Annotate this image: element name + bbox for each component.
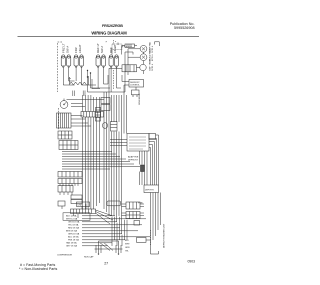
control box B1	[129, 80, 144, 88]
wire right column	[151, 193, 161, 249]
wire bundle bottom verticals	[112, 217, 127, 246]
box small BS1	[58, 201, 65, 206]
capacitor block right 2	[126, 212, 144, 226]
motor M2 condenser fan	[140, 54, 147, 61]
svg-text:GRY 18 GA: GRY 18 GA	[66, 245, 78, 248]
lamp L2 freezer light	[74, 55, 84, 68]
svg-text:GRN: GRN	[125, 247, 130, 249]
ground bracket	[151, 248, 159, 254]
label freezer light	[74, 44, 82, 53]
motor M1 evaporator fan	[140, 45, 147, 52]
cabinet outline left (dashed)	[58, 42, 63, 92]
box text BT1	[77, 202, 90, 207]
part P2 dark	[141, 165, 145, 172]
connector box ice maker	[107, 201, 121, 206]
svg-text:RED 18 GA: RED 18 GA	[68, 227, 79, 230]
wire control box leads	[122, 75, 136, 92]
header model number	[102, 24, 123, 28]
wire block exits right	[149, 135, 159, 185]
lamp L4 refrigerator light	[109, 55, 119, 68]
wire harness horizontal center	[62, 152, 140, 170]
heater bar H1	[96, 108, 101, 122]
terminal strip TS1	[81, 112, 104, 118]
svg-text:ADAPTIVE: ADAPTIVE	[128, 156, 139, 159]
wire right bundle	[140, 151, 148, 185]
label cond fan motor	[149, 49, 155, 61]
wire bus under lamps	[63, 75, 125, 92]
wire motor leads	[125, 42, 159, 92]
wire corner nest	[89, 76, 101, 89]
svg-text:CONTROL: CONTROL	[130, 85, 141, 87]
footer code 0903	[187, 260, 195, 264]
label refr light	[109, 44, 117, 53]
svg-text:*: *	[115, 40, 117, 44]
footer legend	[19, 263, 57, 271]
wire top cross line	[67, 100, 105, 107]
wire strip fanout	[62, 204, 113, 225]
label evap fan motor	[149, 42, 155, 53]
wire bundle A (center)	[104, 92, 122, 212]
switch bank SB2	[58, 179, 82, 184]
label vertical small	[139, 93, 141, 105]
label freezer light switch	[62, 43, 70, 53]
svg-text:GRN 18 GA: GRN 18 GA	[68, 233, 80, 236]
capacitor block right	[126, 202, 144, 209]
svg-text:* = Non-Illustrated Parts: * = Non-Illustrated Parts	[19, 267, 57, 271]
connector stubs	[73, 91, 85, 97]
label small right mid	[138, 203, 143, 205]
svg-text:0903: 0903	[187, 260, 195, 264]
label under block	[128, 156, 139, 162]
svg-text:MTR #: MTR #	[152, 54, 154, 61]
svg-text:FRS26ZRGB: FRS26ZRGB	[102, 24, 123, 28]
svg-text:PINK: PINK	[138, 203, 143, 205]
switch bank SB3	[58, 186, 73, 193]
control housing hatched	[57, 113, 72, 128]
defrost heater box	[144, 185, 159, 193]
svg-text:YEL 18 GA: YEL 18 GA	[68, 224, 79, 227]
svg-text:MTR #: MTR #	[152, 63, 154, 70]
lamp L1 freezer light switch	[61, 55, 71, 68]
wire housing links	[71, 116, 91, 127]
label right vertical text	[163, 223, 166, 248]
wire relay to bundle	[109, 43, 125, 93]
svg-text:WIRING DIAGRAM: WIRING DIAGRAM	[91, 30, 127, 35]
svg-text:WHT: WHT	[125, 244, 130, 246]
dashed line right bottom	[150, 230, 152, 245]
label relay	[150, 58, 155, 70]
svg-text:BLK: BLK	[125, 240, 129, 242]
wire compressor links	[99, 241, 119, 249]
header rule	[18, 35, 200, 37]
wire bundle A lower	[109, 132, 122, 235]
connector block CB1	[127, 134, 156, 152]
compressor motor symbol	[95, 241, 103, 255]
terminal strip TS2	[71, 209, 96, 214]
terminator box right	[137, 238, 151, 243]
part P1 small	[132, 90, 140, 97]
node asterisk marker top	[114, 40, 118, 45]
lamp L3 refrigerator light switch	[96, 55, 106, 68]
wire lamp drops	[63, 68, 116, 93]
wire cap block stubs	[114, 204, 126, 216]
wire merge dots	[87, 70, 91, 78]
partition dashed	[113, 70, 115, 90]
label compressor	[57, 255, 94, 259]
svg-text:SW #: SW #	[66, 46, 70, 53]
label rows right	[125, 240, 130, 253]
wire label rows	[66, 215, 80, 248]
svg-text:BLU 18 GA: BLU 18 GA	[68, 236, 79, 239]
wire right feeders	[110, 92, 127, 146]
selector rows R2	[59, 141, 78, 150]
svg-text:ORG 18 GA: ORG 18 GA	[68, 221, 80, 224]
wire rows lines	[82, 216, 150, 251]
relay K1 and overload	[122, 64, 146, 72]
svg-text:DEFROST: DEFROST	[128, 159, 139, 161]
wire vertical pair center	[88, 71, 91, 93]
title WIRING DIAGRAM	[91, 30, 127, 35]
wire bundle B (left) above strip	[83, 95, 100, 112]
box pair BP1	[71, 195, 82, 204]
cabinet outline mid (dashed)	[58, 108, 60, 130]
svg-text:LIGHT: LIGHT	[78, 44, 82, 53]
switch bank SB1	[58, 172, 82, 178]
start device symbol	[115, 241, 123, 255]
wire bundle B below strip	[83, 117, 100, 209]
thermostat dashed box	[106, 41, 133, 50]
svg-text:DEFROST: DEFROST	[130, 82, 140, 84]
label refr light switch	[96, 43, 104, 53]
svg-text:*: *	[106, 41, 108, 45]
svg-text:5995526908: 5995526908	[174, 26, 195, 30]
thermostat dial TH1	[60, 99, 68, 109]
svg-text:PNK 18 GA: PNK 18 GA	[68, 239, 79, 242]
svg-text:BRN 18 GA: BRN 18 GA	[66, 230, 77, 233]
svg-text:SW #: SW #	[100, 46, 104, 53]
svg-text:TAN 18 GA: TAN 18 GA	[66, 242, 77, 245]
inductor choke	[122, 44, 137, 47]
svg-text:27: 27	[104, 261, 108, 265]
comb ticks SB2	[60, 184, 78, 187]
page number 27	[104, 261, 108, 265]
svg-text:RUN CAP: RUN CAP	[84, 256, 94, 259]
comb ticks SB3	[60, 192, 72, 195]
svg-text:DEF HTR: DEF HTR	[145, 189, 154, 191]
wire label frame	[63, 213, 90, 221]
heater element zigzag	[69, 77, 87, 85]
svg-text:DEFROST HEATER 120V: DEFROST HEATER 120V	[163, 223, 166, 248]
svg-text:BLK 14 GA: BLK 14 GA	[66, 215, 77, 218]
switch S5 box	[101, 98, 110, 111]
selector rows R1	[58, 131, 72, 139]
component group compressor relay	[102, 122, 117, 132]
svg-text:MTR #: MTR #	[152, 45, 154, 52]
svg-text:COMPRESSOR: COMPRESSOR	[57, 255, 73, 257]
svg-text:SOLENOID: SOLENOID	[139, 93, 141, 105]
header publication number	[170, 22, 195, 30]
svg-text:# = Fast-Moving Parts: # = Fast-Moving Parts	[20, 263, 55, 267]
svg-text:YEL: YEL	[125, 251, 130, 253]
